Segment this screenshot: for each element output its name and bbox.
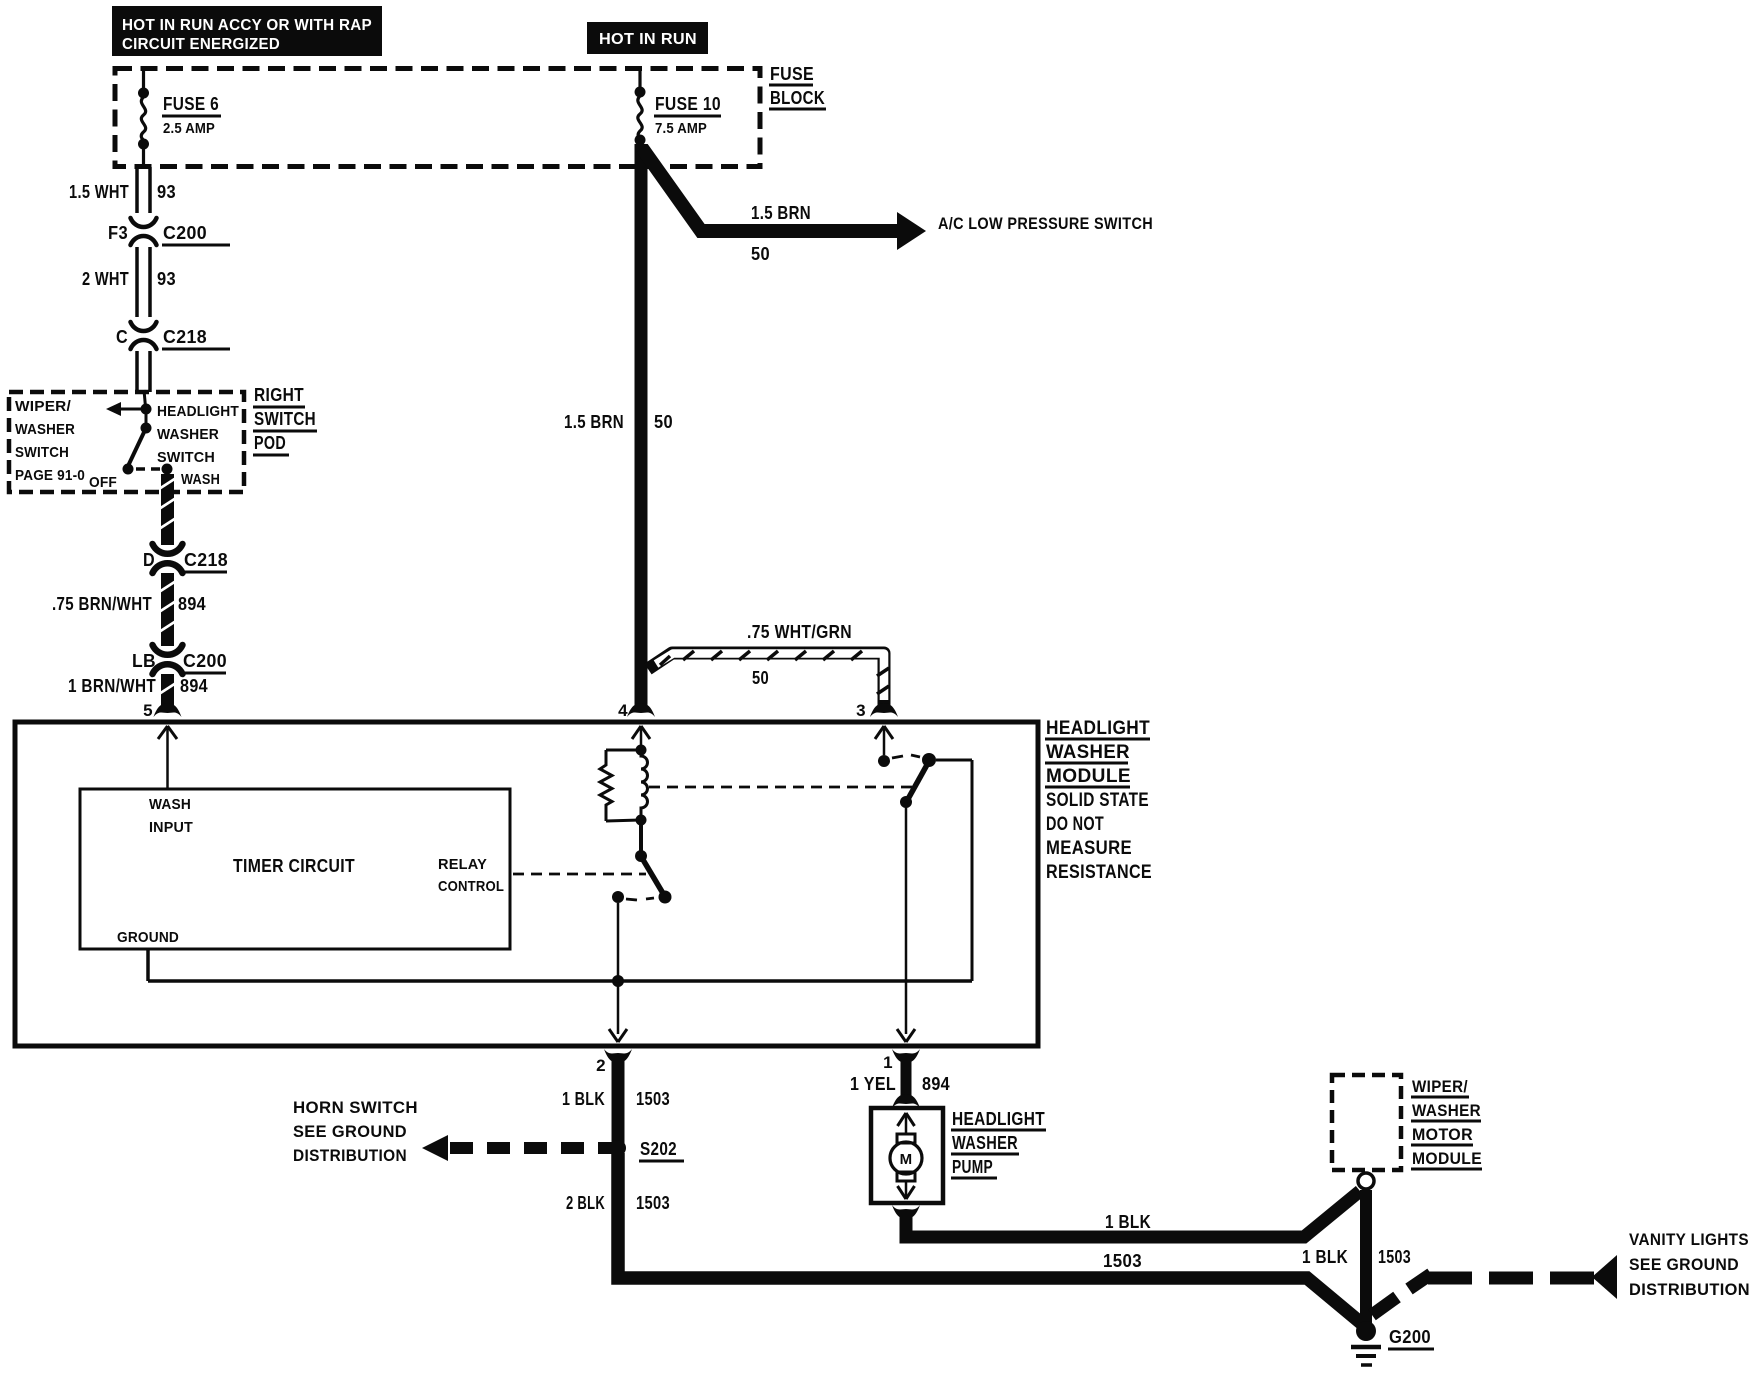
svg-text:LB: LB bbox=[132, 651, 156, 671]
connector C200 pin LB bbox=[132, 645, 227, 674]
svg-text:1: 1 bbox=[883, 1053, 893, 1072]
svg-text:WASH: WASH bbox=[149, 796, 191, 813]
connector C200 pin F3 bbox=[108, 218, 230, 245]
pin 3 internal arrow and contact bbox=[875, 726, 936, 767]
svg-text:POD: POD bbox=[254, 433, 286, 453]
splice S202 bbox=[610, 1139, 684, 1161]
switch arm (to OFF) bbox=[128, 428, 146, 466]
svg-text:DISTRIBUTION: DISTRIBUTION bbox=[293, 1146, 407, 1165]
svg-text:894: 894 bbox=[180, 676, 208, 696]
svg-text:FUSE 6: FUSE 6 bbox=[163, 94, 219, 114]
svg-text:5: 5 bbox=[143, 701, 153, 720]
wire .75 BRN/WHT (C218 to C200) hatched bbox=[159, 573, 176, 646]
svg-text:1503: 1503 bbox=[636, 1193, 670, 1213]
svg-text:SWITCH: SWITCH bbox=[157, 449, 215, 466]
svg-text:HOT IN RUN: HOT IN RUN bbox=[599, 31, 697, 48]
pump motor M1 bbox=[890, 1113, 922, 1199]
relay coil bbox=[641, 750, 648, 820]
wire relay arm to pin 1 bbox=[905, 802, 908, 1034]
svg-text:50: 50 bbox=[751, 244, 770, 264]
svg-text:F3: F3 bbox=[108, 223, 128, 243]
svg-text:1 YEL: 1 YEL bbox=[850, 1074, 896, 1094]
svg-text:INPUT: INPUT bbox=[149, 819, 193, 836]
svg-text:HORN SWITCH: HORN SWITCH bbox=[293, 1098, 418, 1117]
label: HORN SWITCH SEE GROUND DISTRIBUTION bbox=[293, 1098, 418, 1165]
OFF contact bbox=[89, 464, 134, 492]
wire 1 BLK 1503 (pump to G200) bbox=[906, 1191, 1360, 1271]
relay armature (pin2 side) bbox=[635, 820, 672, 904]
svg-text:.75 BRN/WHT: .75 BRN/WHT bbox=[52, 594, 152, 614]
wire 2 BLK 1503 (S202 to G200) bbox=[566, 1153, 1367, 1328]
svg-text:HEADLIGHT: HEADLIGHT bbox=[1046, 718, 1150, 739]
wire to horn switch ground distribution (dashed) bbox=[422, 1135, 612, 1161]
svg-text:2 WHT: 2 WHT bbox=[82, 269, 129, 289]
svg-text:SEE GROUND: SEE GROUND bbox=[1629, 1255, 1739, 1274]
wire .75 WHT/GRN 50 (module pin 3 jumper) outlined/hatched bbox=[648, 622, 889, 705]
fuse block dashed box bbox=[115, 69, 760, 167]
wire 1.5 WHT 93 (fuse6 to C200) bbox=[69, 167, 176, 213]
wire 1.5 BRN 50 (fuse10 to module pin 4) bbox=[564, 144, 673, 708]
svg-text:PAGE 91-0: PAGE 91-0 bbox=[15, 467, 85, 484]
svg-text:1 BRN/WHT: 1 BRN/WHT bbox=[68, 676, 156, 696]
relay armature (pin1 side) bbox=[900, 763, 928, 808]
connector C218 pin D bbox=[143, 544, 228, 573]
label: VANITY LIGHTS SEE GROUND DISTRIBUTION bbox=[1629, 1230, 1750, 1299]
svg-text:HOT IN RUN ACCY OR WITH RAP: HOT IN RUN ACCY OR WITH RAP bbox=[122, 17, 372, 34]
svg-text:DISTRIBUTION: DISTRIBUTION bbox=[1629, 1280, 1750, 1299]
svg-text:M: M bbox=[900, 1151, 913, 1168]
svg-text:3: 3 bbox=[856, 701, 866, 720]
svg-text:CONTROL: CONTROL bbox=[438, 878, 504, 895]
fuse F6 2.5A bbox=[138, 68, 221, 169]
svg-text:2: 2 bbox=[596, 1056, 606, 1075]
label: RIGHT SWITCH POD bbox=[253, 385, 317, 455]
WASH contact bbox=[162, 464, 221, 489]
svg-text:HEADLIGHT: HEADLIGHT bbox=[157, 403, 239, 420]
svg-text:894: 894 bbox=[178, 594, 206, 614]
wire .75 BRN/WHT 894 (WASH to C218 pin D) hatched bbox=[52, 474, 206, 614]
motor module ground pin (open circle) bbox=[1358, 1173, 1374, 1189]
svg-text:SWITCH: SWITCH bbox=[15, 444, 69, 461]
svg-text:MEASURE: MEASURE bbox=[1046, 838, 1132, 859]
svg-text:FUSE 10: FUSE 10 bbox=[655, 94, 721, 114]
wire 2 WHT (C218 into switch pod) bbox=[137, 351, 150, 392]
dashed link OFF to WASH bbox=[136, 467, 160, 471]
svg-text:894: 894 bbox=[922, 1074, 950, 1094]
wire 1.5 BRN 50 branch to A/C low pressure switch bbox=[642, 148, 926, 264]
wire contact to ground rail bbox=[617, 903, 620, 1034]
headlight washer module box bbox=[15, 722, 1038, 1046]
svg-text:93: 93 bbox=[157, 269, 176, 289]
svg-text:4: 4 bbox=[618, 701, 628, 720]
module pin 1 terminal bbox=[883, 1049, 920, 1072]
svg-text:C218: C218 bbox=[184, 550, 228, 570]
svg-text:VANITY LIGHTS: VANITY LIGHTS bbox=[1629, 1230, 1749, 1249]
wire 2 WHT 93 (C200 to C218) bbox=[82, 247, 176, 317]
svg-text:WASHER: WASHER bbox=[15, 421, 75, 438]
switch common node bbox=[141, 404, 152, 434]
fuse F10 7.5A bbox=[635, 68, 722, 146]
svg-text:GROUND: GROUND bbox=[117, 929, 179, 946]
module pin 2 terminal bbox=[596, 1049, 632, 1075]
switch arrow to wiper/washer switch page 91-0 bbox=[106, 390, 146, 416]
dashed relay control line from timer bbox=[513, 873, 646, 876]
svg-text:CIRCUIT ENERGIZED: CIRCUIT ENERGIZED bbox=[122, 36, 280, 53]
svg-text:C218: C218 bbox=[163, 327, 207, 347]
FUSE BLOCK label bbox=[769, 64, 826, 109]
svg-text:C200: C200 bbox=[183, 651, 227, 671]
svg-text:TIMER CIRCUIT: TIMER CIRCUIT bbox=[233, 856, 355, 876]
pin 2 internal arrow (down) bbox=[609, 1029, 627, 1042]
svg-text:1 BLK: 1 BLK bbox=[562, 1089, 605, 1109]
svg-text:1.5 BRN: 1.5 BRN bbox=[751, 203, 811, 223]
svg-text:SWITCH: SWITCH bbox=[254, 409, 316, 429]
svg-text:2 BLK: 2 BLK bbox=[566, 1193, 605, 1213]
label: HEADLIGHT WASHER PUMP bbox=[951, 1109, 1046, 1178]
svg-text:RIGHT: RIGHT bbox=[254, 385, 304, 405]
svg-text:WASH: WASH bbox=[181, 471, 220, 488]
wire to vanity lights ground distribution (dashed) bbox=[1372, 1255, 1617, 1315]
svg-text:HEADLIGHT: HEADLIGHT bbox=[952, 1109, 1045, 1129]
svg-text:A/C LOW PRESSURE SWITCH: A/C LOW PRESSURE SWITCH bbox=[938, 214, 1153, 233]
wire 1 YEL 894 (pin 1 to pump) bbox=[850, 1058, 950, 1108]
module pin 4 terminal bbox=[618, 701, 655, 720]
connector C218 pin C bbox=[116, 322, 230, 349]
resistor (relay coil suppression) bbox=[600, 750, 612, 821]
svg-text:1 BLK: 1 BLK bbox=[1105, 1212, 1151, 1232]
wire 1 BRN/WHT 894 (C200 to module pin 5) hatched bbox=[68, 674, 208, 706]
svg-text:WIPER/: WIPER/ bbox=[1412, 1077, 1468, 1096]
module pin 5 terminal bbox=[143, 701, 181, 720]
label box: HOT IN RUN ACCY OR WITH RAP CIRCUIT ENERGIZED bbox=[112, 6, 382, 56]
pump lower terminal bbox=[892, 1205, 920, 1219]
svg-text:MODULE: MODULE bbox=[1046, 766, 1131, 787]
svg-text:1503: 1503 bbox=[636, 1089, 670, 1109]
svg-text:WASHER: WASHER bbox=[157, 426, 219, 443]
svg-text:1.5 BRN: 1.5 BRN bbox=[564, 412, 624, 432]
svg-text:1503: 1503 bbox=[1378, 1247, 1411, 1267]
svg-text:DO NOT: DO NOT bbox=[1046, 814, 1104, 835]
svg-text:.75 WHT/GRN: .75 WHT/GRN bbox=[747, 622, 852, 642]
headlight washer pump box bbox=[871, 1108, 943, 1203]
label box: HOT IN RUN bbox=[587, 22, 708, 54]
svg-text:2.5 AMP: 2.5 AMP bbox=[163, 121, 215, 137]
ground rail wire bbox=[148, 760, 972, 981]
svg-text:1.5 WHT: 1.5 WHT bbox=[69, 182, 129, 202]
svg-text:MOTOR: MOTOR bbox=[1412, 1125, 1473, 1144]
svg-text:WASHER: WASHER bbox=[952, 1133, 1018, 1153]
svg-text:50: 50 bbox=[752, 668, 769, 688]
svg-text:WIPER/: WIPER/ bbox=[15, 398, 72, 415]
svg-text:RESISTANCE: RESISTANCE bbox=[1046, 862, 1152, 883]
node: relay coil top bbox=[636, 745, 647, 756]
wire resistor bottom bbox=[606, 820, 641, 821]
pin 1 internal arrow (down) bbox=[897, 1029, 915, 1042]
svg-text:OFF: OFF bbox=[89, 474, 117, 491]
node: relay coil bottom bbox=[636, 815, 647, 826]
svg-text:G200: G200 bbox=[1389, 1327, 1431, 1347]
svg-text:7.5 AMP: 7.5 AMP bbox=[655, 121, 707, 137]
module pin 3 terminal bbox=[856, 701, 898, 720]
svg-text:MODULE: MODULE bbox=[1412, 1149, 1482, 1168]
wire 1 BLK 1503 (pin 2 to S202) bbox=[562, 1060, 670, 1148]
svg-text:1503: 1503 bbox=[1103, 1251, 1142, 1271]
pin 5 internal arrow to wash input bbox=[158, 726, 177, 789]
svg-text:C: C bbox=[116, 327, 128, 347]
wire 1 BLK 1503 (motor module to G200) bbox=[1302, 1190, 1411, 1329]
svg-text:50: 50 bbox=[654, 412, 673, 432]
wiper/washer motor module dashed box bbox=[1332, 1075, 1482, 1170]
node on ground rail bbox=[612, 975, 624, 987]
svg-text:SEE GROUND: SEE GROUND bbox=[293, 1122, 407, 1141]
svg-text:RELAY: RELAY bbox=[438, 856, 487, 873]
svg-text:93: 93 bbox=[157, 182, 176, 202]
pin 4 internal arrow bbox=[632, 726, 650, 750]
svg-text:SOLID STATE: SOLID STATE bbox=[1046, 790, 1149, 811]
svg-text:PUMP: PUMP bbox=[952, 1157, 993, 1177]
svg-text:BLOCK: BLOCK bbox=[770, 88, 825, 108]
svg-text:D: D bbox=[143, 550, 155, 570]
dashed actuation line from coil to pin3 relay arm bbox=[649, 786, 913, 789]
headlight washer switch dashed box (right switch pod) bbox=[9, 392, 244, 492]
svg-text:WASHER: WASHER bbox=[1412, 1101, 1481, 1120]
svg-text:FUSE: FUSE bbox=[770, 64, 814, 84]
svg-text:C200: C200 bbox=[163, 223, 207, 243]
wire to resistor branch bbox=[606, 749, 641, 752]
svg-text:WASHER: WASHER bbox=[1046, 742, 1130, 763]
svg-text:S202: S202 bbox=[640, 1139, 677, 1159]
svg-text:1 BLK: 1 BLK bbox=[1302, 1247, 1348, 1267]
label: HEADLIGHT WASHER MODULE SOLID STATE bbox=[1045, 718, 1152, 883]
contact node to pin 2 bbox=[612, 891, 654, 903]
ground G200 bbox=[1351, 1321, 1434, 1365]
timer circuit box bbox=[80, 789, 510, 949]
